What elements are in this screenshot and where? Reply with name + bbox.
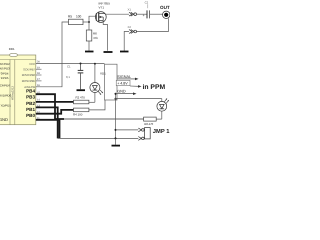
- svg-text:ICP/PD6: ICP/PD6: [0, 84, 10, 88]
- wire GND vertical rail: [115, 94, 117, 139]
- ground for C1: [77, 89, 86, 91]
- IC DD1 internal divider column: [10, 60, 15, 125]
- node jumper top junction: [115, 129, 117, 131]
- wire PB3 to R2: [36, 101, 74, 103]
- ground G4: [115, 138, 117, 144]
- wire VT1 source to ground: [103, 20, 107, 50]
- svg-text:OUT: OUT: [160, 5, 170, 10]
- svg-text:SIGNAL: SIGNAL: [117, 75, 131, 79]
- resistor R4: [74, 108, 89, 112]
- capacitor C2: [147, 10, 150, 18]
- wire bottom rail: [58, 137, 139, 139]
- svg-text:X2: X2: [128, 25, 132, 29]
- wire C2 to jack: [150, 13, 163, 15]
- svg-text:GND: GND: [0, 117, 8, 122]
- svg-text:DD1: DD1: [9, 47, 15, 51]
- connector OUT jack: [163, 11, 170, 18]
- svg-text:R5: R5: [68, 15, 72, 19]
- svg-text:R4 100: R4 100: [73, 112, 83, 116]
- svg-text:47k: 47k: [93, 36, 98, 40]
- svg-text:VT1: VT1: [99, 6, 105, 10]
- resistor R5: [69, 19, 84, 24]
- svg-text:R2 470: R2 470: [76, 95, 86, 99]
- IC pin numbers: [37, 61, 40, 120]
- svg-text:C1: C1: [67, 65, 71, 69]
- jumper JMP1 pins: [138, 128, 150, 141]
- svg-text:C2: C2: [145, 0, 149, 4]
- wire X1 to capacitor C2: [137, 13, 147, 15]
- wire R2 right to VD1 cathode: [89, 101, 95, 103]
- svg-text:T0/PD4: T0/PD4: [0, 71, 9, 75]
- wire VCC pin 20 to PPM connector: [36, 63, 105, 65]
- svg-text:X1: X1: [128, 8, 132, 12]
- resistor R6: [86, 30, 92, 41]
- ground G3: [120, 51, 129, 53]
- IC pin stubs: [36, 69, 42, 81]
- svg-text:PB3: PB3: [26, 95, 35, 100]
- connector X1: [129, 12, 137, 16]
- wire VT1 drain to connector X1: [105, 13, 129, 15]
- node bottom rail junction: [115, 137, 117, 139]
- IC right pin labels: [22, 62, 36, 118]
- wire R4 right up to PPM box: [89, 100, 105, 110]
- transistor VT1: [95, 12, 106, 23]
- node GND junction: [115, 98, 117, 100]
- svg-text:INT/PD3: INT/PD3: [0, 67, 10, 71]
- svg-text:PB2: PB2: [26, 101, 35, 106]
- wire jack return to X2: [137, 18, 169, 31]
- node gate junction: [88, 21, 90, 23]
- svg-text:PB0: PB0: [26, 113, 35, 118]
- IC DD1 rotated part name ATtiny2313: [11, 86, 15, 100]
- svg-text:VD1: VD1: [100, 72, 106, 76]
- wire PB0 to bottom rail: [36, 120, 60, 139]
- LED VD1: [90, 64, 103, 103]
- capacitor C1: [78, 64, 84, 90]
- wire PB1 to R4: [36, 110, 74, 114]
- label SIGNAL with arrow: [117, 75, 138, 80]
- svg-text:0,1: 0,1: [66, 75, 70, 79]
- label GND with arrow: [117, 90, 136, 95]
- wire PB4 to R8 chain: [36, 94, 64, 119]
- svg-text:T1/PD5: T1/PD5: [0, 76, 9, 80]
- ground G2: [104, 51, 113, 53]
- IC left pin labels: [0, 62, 12, 122]
- wire GND node to LED HL1: [116, 98, 162, 100]
- svg-text:MOSI/PB5: MOSI/PB5: [22, 79, 36, 83]
- wire gate node up to MOSFET gate: [89, 16, 96, 22]
- resistor R2: [74, 100, 89, 104]
- svg-text:in PPM: in PPM: [143, 84, 166, 91]
- wire LED to R8: [156, 118, 162, 120]
- ground G1: [85, 51, 94, 53]
- svg-text:ATtiny2313: ATtiny2313: [11, 86, 15, 100]
- svg-text:PB4: PB4: [26, 88, 35, 93]
- svg-text:RXD/PD0: RXD/PD0: [0, 94, 12, 98]
- node C1 junction: [80, 63, 82, 65]
- node VD1 junction: [94, 63, 96, 65]
- svg-text:+: +: [143, 13, 145, 17]
- svg-text:MISO/PB6: MISO/PB6: [22, 73, 36, 77]
- svg-text:SCK/PB7: SCK/PB7: [23, 67, 35, 71]
- label +4.8V boxed with arrow: [116, 80, 141, 87]
- svg-text:+ 4.8V: + 4.8V: [117, 82, 128, 86]
- connector X2: [129, 30, 137, 34]
- wire X2 to ground G3: [124, 32, 129, 51]
- svg-text:GND: GND: [117, 90, 126, 94]
- wire PB2 to bottom rail: [36, 107, 58, 138]
- svg-text:PB1: PB1: [26, 107, 35, 112]
- wire R6 to ground: [88, 41, 90, 51]
- svg-text:JMP 1: JMP 1: [153, 129, 170, 135]
- svg-text:VCC: VCC: [29, 62, 35, 66]
- IC DD1 body: [0, 53, 36, 124]
- wire to jumper upper pin: [116, 129, 139, 131]
- wire gate node to R6: [88, 22, 90, 30]
- svg-text:100: 100: [76, 15, 82, 19]
- svg-text:TXD/PD1: TXD/PD1: [0, 104, 11, 108]
- wire gate net pin 16 up to R5: [36, 22, 69, 87]
- svg-text:R8 470: R8 470: [144, 122, 153, 126]
- wire R5 to gate node: [83, 21, 89, 23]
- svg-text:INT/PD2: INT/PD2: [0, 62, 10, 66]
- LED HL1: [157, 98, 169, 119]
- resistor R8: [144, 117, 157, 121]
- connector PPM box: [105, 64, 118, 100]
